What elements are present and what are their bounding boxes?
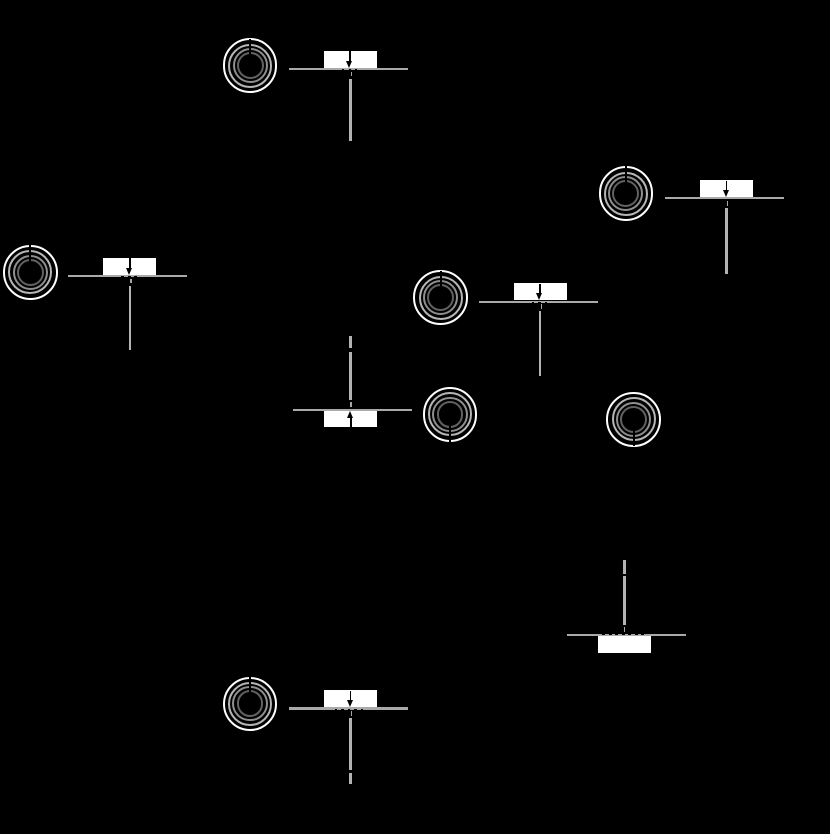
phase dial P4 (antenna A4) [413,270,468,325]
phase dial P1 (antenna A1) [223,38,278,93]
antenna A2 value text (black, over wire) [724,200,728,209]
antenna A4 value text (black, over wire) [538,303,542,312]
antenna A4 crossbar [479,301,598,303]
antenna A5 value box [324,411,377,428]
antenna A3 crossbar [68,275,187,277]
antenna A4 current arrow (down) [539,284,541,294]
antenna A6 wire end dash [623,560,626,574]
antenna A3 current arrow (down) [129,258,131,268]
antenna A5 current arrow (up) [347,411,353,418]
phase pointer P7 (antenna A7) (up) [249,677,251,704]
phase dial P6 (antenna A6) [606,392,661,447]
antenna A2 wire [725,200,728,274]
antenna A3 value box [103,258,156,275]
antenna A7 wire [349,710,352,771]
antenna A6 crossbar [567,634,686,636]
phase pointer P2 (antenna A2) (up) [625,166,627,193]
antenna A6 value text (black, over wire) [622,625,626,634]
antenna A2 value box [700,180,753,197]
phase dial P2 (antenna A2) [599,166,654,221]
antenna A1 value box [324,51,377,68]
antenna A1 crossbar [289,68,408,70]
antenna A2 crossbar [665,197,784,199]
antenna A5 crossbar [293,409,412,411]
phase pointer P3 (antenna A3) (up) [29,245,31,272]
antenna A1 wire [349,70,352,141]
antenna A4 wire [539,303,542,376]
antenna A2 current arrow (down) [726,181,728,191]
antenna A7 crossbar [289,707,408,709]
antenna A6 value box [598,636,651,653]
antenna A5 wire [349,352,352,409]
phase pointer P5 (antenna A5) (down) [449,414,451,441]
phase dial P3 (antenna A3) [3,245,58,300]
phase dial P5 (antenna A5) [423,387,478,442]
antenna A3 value text (black, over wire) [128,277,132,286]
phase pointer P1 (antenna A1) (up) [249,39,251,66]
antenna A4 value box [514,283,567,300]
phase pointer P4 (antenna A4) (up) [440,271,442,298]
antenna A1 value text (black, over wire) [348,70,352,79]
antenna A7 wire end dash [349,773,352,785]
antenna A7 value text (black, over wire) [348,710,352,719]
antenna A1 current arrow (down) [349,51,351,61]
phase dial P7 (antenna A7) [223,677,278,732]
antenna A3 wire [129,277,132,350]
phase pointer P6 (antenna A6) (down) [633,419,635,446]
antenna A5 wire end dash [349,336,352,347]
antenna A7 value box [324,690,377,707]
antenna A5 value text (black, over wire) [349,400,353,409]
antenna A6 wire [623,576,626,634]
antenna A7 current arrow (down) [350,691,352,701]
